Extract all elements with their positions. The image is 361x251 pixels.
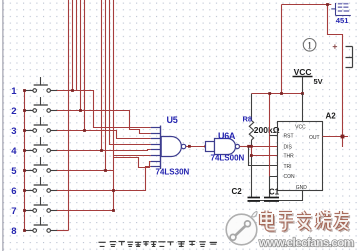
junction trunk / key row 7 [112, 209, 115, 212]
wire: key row 8 to column [57, 230, 69, 232]
junction key row 5 / column [104, 169, 107, 172]
wire: key row 2 to U5 input 2 [57, 111, 151, 134]
svg-text:1: 1 [307, 41, 312, 51]
svg-text:C2: C2 [232, 187, 243, 196]
OUT pin wire [323, 136, 349, 138]
U5 output bubble [181, 144, 185, 148]
op U6A NAND gate 74LS00N [206, 139, 240, 155]
VCC rail wire [252, 93, 303, 95]
svg-text:www.elecfans.com: www.elecfans.com [258, 236, 354, 249]
right edge component (polarized cap, cut off) [346, 47, 353, 68]
junction on key bus row 1 [23, 89, 26, 92]
svg-text:A2: A2 [326, 112, 337, 121]
svg-text:3: 3 [11, 126, 16, 137]
U5 input stub 2 [151, 133, 161, 135]
svg-text:DIS: DIS [284, 144, 293, 150]
wire U6A output to node [240, 146, 252, 148]
left key bus wire [24, 91, 26, 231]
U5 input stub 6 [151, 155, 161, 157]
VCC pin wire [302, 94, 304, 122]
junction key row 2 / column [79, 109, 82, 112]
svg-text:74LS30N: 74LS30N [156, 168, 190, 177]
switch S7 (pushbutton) [25, 198, 58, 213]
sheet left border [2, 0, 4, 251]
svg-text:2: 2 [11, 106, 16, 117]
wire: key row 4 to U5 input 5 [57, 150, 151, 151]
svg-text:GND: GND [296, 185, 308, 191]
wire: vertical column x=84.5 up to top edge (net of key 3) [84, 0, 86, 131]
U5 gate body [161, 137, 181, 157]
wire from top right down to VCC rail [281, 5, 283, 94]
junction on key bus row 7 [23, 209, 26, 212]
svg-text:VCC: VCC [294, 67, 312, 77]
wire: key row 6 to U5 input 8 [57, 167, 151, 191]
watermark logo disc [226, 211, 257, 244]
U5 input stub 4 [151, 144, 161, 146]
svg-text:4: 4 [11, 146, 17, 157]
junction on key bus row 3 [23, 129, 26, 132]
top wire to 451 component [282, 5, 332, 9]
resistor R8 200k [249, 94, 253, 147]
junction key row 4 / column [100, 149, 103, 152]
U5 input stub 5 [151, 149, 161, 151]
wire: vertical column x=68.5 up to top edge (net of key 8) [68, 0, 70, 231]
wire: staircase trunk to U5 input 7 [114, 158, 151, 168]
switch S1 (pushbutton) [25, 78, 58, 93]
U5 input stub 8 [151, 166, 161, 168]
svg-text:CON: CON [284, 174, 296, 180]
watermark text dianzifashaoyou [263, 212, 351, 232]
svg-text:VCC: VCC [295, 125, 306, 131]
GND pin wire and ground rail [248, 191, 303, 201]
svg-text:7: 7 [11, 206, 16, 217]
junction on key bus row 2 [23, 109, 26, 112]
U5 input stub 3 [151, 138, 161, 140]
junction on key bus row 5 [23, 169, 26, 172]
junction on key bus row 8 [23, 229, 26, 232]
wire: trunk column keys 6,7 [113, 0, 115, 211]
junction key row 3 / column [83, 129, 86, 132]
node column to C2, DIS and THR wires [252, 147, 278, 156]
switch S4 (pushbutton) [25, 138, 58, 153]
svg-text:8: 8 [11, 226, 16, 237]
junction on key bus row 4 [23, 149, 26, 152]
svg-text:U5: U5 [167, 115, 178, 125]
svg-text:5V: 5V [314, 77, 323, 86]
wire: vertical column x=76.5 up to top edge (net of key 1) [76, 0, 78, 91]
junction key row 1 / column [71, 89, 74, 92]
svg-text:THR: THR [284, 154, 295, 160]
U5 input bar [160, 126, 162, 170]
svg-text:OUT: OUT [309, 135, 320, 141]
wire U5 output to U6A input [186, 146, 206, 148]
svg-text:U6A: U6A [218, 131, 236, 141]
junction on key bus row 6 [23, 189, 26, 192]
switch S8 (pushbutton) [25, 218, 58, 233]
svg-text:TRI: TRI [284, 164, 292, 170]
wire: vertical column x=105.5 up to top edge (net of key 5) [105, 0, 107, 171]
svg-text:RST: RST [284, 134, 294, 140]
switch S3 (pushbutton) [25, 118, 58, 133]
junction trunk / key row 6 [112, 189, 115, 192]
svg-text:6: 6 [11, 186, 16, 197]
wire: key row 7 [57, 210, 114, 212]
svg-text:5: 5 [11, 166, 17, 177]
wire to TRI [249, 147, 278, 166]
annotation circled 1 [303, 39, 316, 52]
svg-text:1: 1 [11, 86, 17, 97]
switch S6 (pushbutton) [25, 178, 58, 193]
wire: vertical column x=101.5 up to top edge (net of key 4) [101, 0, 103, 151]
svg-text:200kΩ: 200kΩ [254, 125, 280, 135]
IC A2 555 timer box [278, 122, 323, 191]
U5 input stub 7 [151, 161, 161, 163]
component 451 (cut off at top right) [331, 3, 351, 16]
U5 input stub 1 [151, 127, 161, 129]
svg-text:C1: C1 [269, 188, 280, 197]
svg-text:451: 451 [336, 16, 349, 25]
wire: key row 3 to U5 input 3 [57, 131, 151, 139]
switch S2 (pushbutton) [25, 98, 58, 113]
svg-text:R8: R8 [243, 115, 253, 124]
svg-text:74LS00N: 74LS00N [211, 154, 245, 163]
wire top right corner to right column [328, 5, 343, 148]
wire: key row 5 to U5 input 6 [57, 156, 151, 171]
switch S5 (pushbutton) [25, 158, 58, 173]
bottom caption (clipped chinese text) [99, 241, 217, 247]
op U5 8-input NAND gate 74LS30N [151, 126, 186, 170]
wire: vertical column x=80.5 up to top edge (net of key 2) [80, 0, 82, 111]
wire: vertical column x=72.5 up to top edge (net of key 1) [72, 0, 74, 91]
wire: key row 1 to U5 input 1 [57, 91, 151, 128]
wire: feeder column to U5 input 4 [110, 0, 151, 145]
vertical wire VCC to RST and CON / C1 [269, 94, 271, 177]
